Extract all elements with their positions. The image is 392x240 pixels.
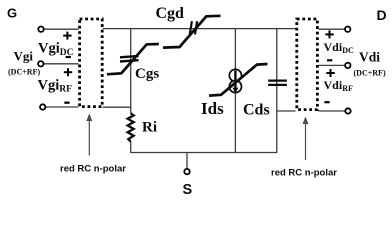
svg-text:red RC n-polar: red RC n-polar [60, 163, 126, 174]
capacitor Cgs plates [120, 56, 139, 57]
polarity minus VdiRF [324, 101, 329, 103]
polarity plus VdiRF [326, 72, 334, 74]
capacitor Cds plates [268, 79, 287, 81]
polarity plus VdiDC [325, 33, 333, 35]
capacitor Cgs variable arrow [107, 44, 159, 74]
polarity minus VgiDC [66, 56, 71, 58]
terminal right bottom circle [345, 108, 350, 113]
svg-text:D: D [377, 7, 387, 23]
current source Ids arrow [234, 70, 236, 88]
svg-text:G: G [7, 6, 17, 21]
wire Ri bottom to bottom rail [130, 141, 132, 152]
svg-text:(DC+RF): (DC+RF) [8, 67, 40, 76]
wire Ids vertical rail lower [234, 92, 236, 153]
svg-text:Vgi: Vgi [14, 49, 34, 64]
wire Cds vertical rail [276, 29, 278, 153]
svg-text:Vdi: Vdi [359, 50, 380, 65]
capacitor Cgd plates [190, 21, 192, 34]
wire right RC box to right bottom terminal [319, 110, 345, 112]
current source Ids circles [229, 69, 241, 81]
wire drain node to right RC box bottom [277, 110, 296, 112]
terminal right middle circle [345, 63, 350, 68]
polarity plus VgiRF [64, 71, 72, 73]
wire top rail between boxes [103, 28, 296, 30]
polarity plus VgiDC [63, 35, 71, 37]
terminal left bottom circle [40, 104, 45, 109]
capacitor Cgd variable arrow [163, 16, 221, 48]
wire left middle terminal to left RC box [44, 63, 78, 65]
svg-text:(DC+RF): (DC+RF) [354, 69, 386, 78]
annotation arrow left [88, 119, 90, 156]
wire S stub [186, 153, 188, 169]
polarity minus VdiDC [327, 59, 332, 61]
wire left box bottom to gate node [103, 106, 132, 108]
resistor Ri [128, 113, 134, 141]
svg-text:Cgs: Cgs [135, 66, 159, 82]
terminal left middle circle [38, 61, 43, 66]
wire right RC box to D terminal [319, 28, 345, 30]
wire Cgs / Ri vertical rail [130, 29, 132, 114]
wire G terminal to left RC box [44, 28, 78, 30]
terminal G circle [38, 27, 43, 32]
wire Ids vertical rail upper [234, 29, 236, 70]
svg-text:red RC n-polar: red RC n-polar [271, 167, 337, 178]
svg-text:Cds: Cds [243, 102, 270, 119]
svg-text:Ri: Ri [142, 119, 157, 135]
wire left bottom terminal to left RC box [46, 106, 79, 108]
annotation arrow right [305, 122, 307, 160]
wire bottom rail [130, 152, 277, 154]
terminal S circle [184, 169, 189, 174]
svg-text:Ids: Ids [201, 99, 224, 118]
wire right RC box to right middle terminal [319, 64, 345, 66]
current source Ids variable arrow [209, 64, 268, 96]
left RC network dotted box [80, 19, 103, 107]
svg-text:S: S [183, 182, 193, 198]
right RC network dotted box [297, 19, 318, 110]
svg-text:Cgd: Cgd [156, 5, 185, 22]
polarity minus VgiRF [64, 102, 69, 104]
terminal D circle [345, 27, 350, 32]
